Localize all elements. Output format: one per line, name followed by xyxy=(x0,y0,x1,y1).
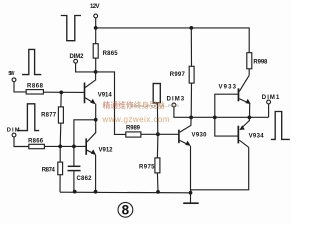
svg-text:V912: V912 xyxy=(99,147,114,153)
junction V930 emitter/ground xyxy=(189,191,193,195)
junction R865/DIM2/V914 collector xyxy=(94,70,98,74)
svg-text:V934: V934 xyxy=(249,134,265,140)
svg-text:www.gzweix.com: www.gzweix.com xyxy=(102,115,170,124)
junction rail/R865 xyxy=(94,26,98,30)
node DIM1 terminal xyxy=(262,95,280,104)
node SW input terminal xyxy=(8,71,16,82)
waveform pulse (DIM1 output) xyxy=(271,112,290,140)
junction R877/R866/R874 xyxy=(58,145,62,149)
wire R997 to collector node xyxy=(190,83,192,117)
wire box lead down xyxy=(156,103,158,134)
wire V934 emitter up xyxy=(248,117,250,121)
svg-text:bdzguo.com 8YQ5—P3M9: bdzguo.com 8YQ5—P3M9 xyxy=(131,103,179,108)
svg-text:V930: V930 xyxy=(192,133,208,139)
wire R877 to lower junction xyxy=(59,123,62,146)
svg-text:R868: R868 xyxy=(27,83,44,89)
junction C862/rail xyxy=(73,190,77,194)
figure number circled 8 xyxy=(118,202,133,217)
transistor V930 xyxy=(178,125,207,145)
wire V912 collector up xyxy=(95,120,97,133)
resistor R868 xyxy=(26,83,43,94)
wire R989 to V930 base xyxy=(141,133,178,135)
svg-text:V914: V914 xyxy=(98,93,113,99)
junction emitters/DIM1 xyxy=(248,116,252,120)
wire DIM1 drop xyxy=(268,104,270,117)
waveform box (DIM3) xyxy=(153,84,160,103)
wire R866 to V912 base xyxy=(44,145,85,147)
resistor R865 xyxy=(93,44,118,58)
wire R975 to rail xyxy=(156,173,159,192)
transistor V934 xyxy=(238,121,265,148)
watermark xyxy=(102,100,180,124)
wire V933 emitter down xyxy=(249,104,251,118)
waveform pulse (SW) xyxy=(22,49,41,74)
wire DIM3 to output line xyxy=(174,107,269,117)
node 12V supply terminal xyxy=(90,4,100,18)
resistor R866 xyxy=(28,138,44,148)
wire V914 emitter to V912 collector loop xyxy=(74,120,96,147)
waveform pulse notch (top left) xyxy=(61,16,81,41)
resistor R997 xyxy=(170,66,194,83)
svg-text:DIM3: DIM3 xyxy=(167,96,185,102)
resistor R877 xyxy=(41,107,63,123)
svg-text:V933: V933 xyxy=(219,85,237,91)
wire bottom ground rail xyxy=(60,191,191,194)
node DIM3 terminal xyxy=(167,96,185,107)
wire R998 to V933 collector xyxy=(248,69,250,76)
wire V930 emitter down xyxy=(190,146,192,193)
wire top supply rail xyxy=(96,28,250,53)
junction R989/R975/V930 base xyxy=(156,132,160,136)
transistor V912 xyxy=(85,132,113,155)
junction R975/rail xyxy=(156,190,160,194)
node DIM2 terminal xyxy=(70,54,85,63)
svg-text:DIM2: DIM2 xyxy=(70,54,85,60)
wire V914 collector up xyxy=(95,72,97,81)
svg-text:C862: C862 xyxy=(77,176,93,182)
junction V914 emitter/V912 collector xyxy=(94,118,98,122)
svg-text:R989: R989 xyxy=(126,126,141,132)
svg-text:R874: R874 xyxy=(42,167,56,173)
wire rail to R997 xyxy=(190,28,192,66)
wire DIM2 to collector node xyxy=(76,63,96,72)
wire C862 bottom lead xyxy=(73,171,75,191)
wire R865 to collector node xyxy=(95,58,97,72)
svg-text:DIM1: DIM1 xyxy=(262,95,280,101)
wire V912 emitter down xyxy=(95,155,97,192)
resistor R998 xyxy=(247,53,268,69)
wire SW to R868 xyxy=(14,82,26,92)
svg-text:R998: R998 xyxy=(253,60,268,66)
wire V934 collector return to ground xyxy=(191,147,249,193)
waveform pulse (DIM) xyxy=(17,104,39,131)
junction C862 top xyxy=(72,145,76,149)
svg-text:8: 8 xyxy=(122,203,130,218)
svg-text:SW: SW xyxy=(8,71,15,77)
svg-text:R975: R975 xyxy=(139,164,155,170)
svg-text:R865: R865 xyxy=(103,51,119,57)
svg-text:R866: R866 xyxy=(28,138,44,144)
wire DIM to R866 xyxy=(14,137,29,147)
svg-text:R997: R997 xyxy=(170,72,186,78)
wire V914 collector node to R989 xyxy=(96,72,126,134)
svg-text:12V: 12V xyxy=(90,4,100,10)
wire junction to R874 xyxy=(59,146,61,162)
wire C862 top lead xyxy=(73,146,75,165)
resistor R874 xyxy=(42,162,63,175)
node DIM input terminal xyxy=(7,127,20,137)
junction R997/V930 collector xyxy=(189,116,193,120)
capacitor C862 xyxy=(68,166,93,182)
ground xyxy=(183,193,199,203)
wire 12V terminal to rail xyxy=(95,18,97,28)
junction base column xyxy=(213,116,217,120)
wire junction to R975 xyxy=(156,134,159,158)
wire base junction to R877 xyxy=(60,92,62,107)
junction R868/R877/V914 base xyxy=(59,91,63,95)
resistor R989 xyxy=(126,126,141,137)
wire V933 base column xyxy=(215,94,238,136)
wire R868 to V914 base xyxy=(43,91,84,93)
junction rail/R997 xyxy=(189,26,193,30)
wire V914 emitter down xyxy=(95,104,97,120)
wire rail to R865 xyxy=(95,28,97,44)
wire V930 collector up xyxy=(190,117,192,125)
resistor R975 xyxy=(139,158,160,173)
junction V912 emitter/rail xyxy=(94,190,98,194)
wire R874 to ground rail xyxy=(59,175,61,193)
svg-text:R877: R877 xyxy=(41,113,57,119)
transistor V914 xyxy=(84,80,113,104)
transistor V933 xyxy=(219,75,251,104)
